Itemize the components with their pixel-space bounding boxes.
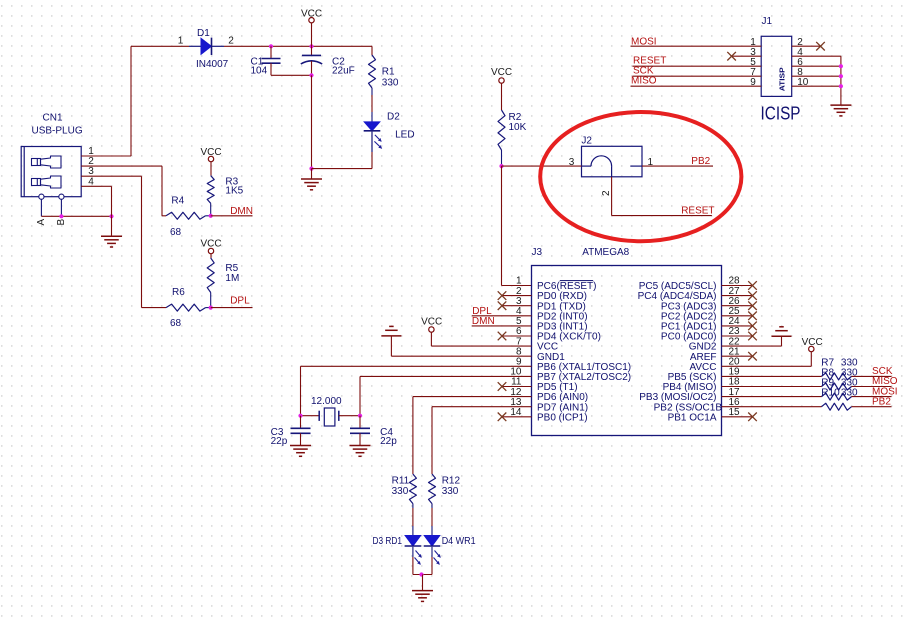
label ICISP: [761, 104, 801, 124]
pin B lead: [56, 199, 67, 225]
svg-text:330: 330: [382, 78, 399, 89]
wire J3 pin13 to R12: [432, 407, 532, 474]
ground below C3: [290, 446, 311, 457]
svg-text:D1: D1: [197, 28, 210, 39]
junction DPL node: [209, 306, 213, 310]
svg-text:B: B: [56, 219, 67, 226]
J1 pin3 stub with no-ERC: [727, 52, 761, 61]
LED D4: [424, 504, 476, 575]
svg-text:68: 68: [170, 318, 182, 329]
net label DPL wire to J3 pin4: [472, 306, 532, 317]
junction J1 pin10: [839, 84, 843, 88]
wire from CN1 pin1 up and across to D1: [102, 46, 190, 156]
svg-text:R6: R6: [172, 287, 185, 298]
svg-text:DMN: DMN: [230, 206, 253, 217]
J1 right pin 8 number: [797, 67, 803, 78]
pin A lead: [36, 199, 47, 225]
J1 pins 4/6/8/10 wires: [792, 56, 841, 105]
svg-text:10K: 10K: [509, 122, 527, 133]
svg-text:LED: LED: [395, 130, 414, 141]
svg-text:1: 1: [178, 36, 184, 47]
resistor R3: [201, 147, 244, 216]
wire CN1 pin4 down: [102, 186, 112, 216]
svg-text:RESET: RESET: [681, 206, 714, 217]
svg-text:R4: R4: [171, 195, 184, 206]
red highlight ellipse: [540, 112, 741, 241]
ground at J3 pin22 GND2: [722, 327, 792, 346]
svg-text:J1: J1: [762, 16, 773, 27]
net label RESET at J2: [681, 206, 714, 217]
junction DMN node: [209, 214, 213, 218]
svg-text:PB2: PB2: [691, 156, 710, 167]
wire J3 pin9 to crystal left: [301, 366, 532, 415]
capacitor C2 22uF (polarized): [301, 46, 355, 76]
svg-text:MOSI: MOSI: [631, 37, 657, 48]
jumper J2: [581, 136, 642, 177]
VCC power to J3 pin7: [421, 316, 531, 346]
net label MISO wire to J1 pin9: [631, 76, 762, 87]
svg-text:D4 WR1: D4 WR1: [442, 536, 476, 547]
svg-text:VCC: VCC: [201, 147, 222, 158]
svg-text:2: 2: [228, 36, 234, 47]
junction crystal left: [298, 414, 302, 418]
wire J3 pin12 to R11: [413, 397, 532, 474]
capacitor C3: [271, 416, 311, 448]
svg-text:VCC: VCC: [301, 9, 322, 20]
svg-text:DPL: DPL: [230, 295, 250, 306]
IC J3 ATMEGA8 body: [532, 247, 722, 435]
ground to J3 pin8: [381, 326, 531, 356]
svg-text:A: A: [36, 219, 47, 226]
junction at C1 top: [269, 44, 273, 48]
resistor R2: [491, 67, 527, 166]
connector J1: [761, 16, 792, 96]
svg-text:ATISP: ATISP: [778, 67, 787, 91]
capacitor C1: [251, 46, 281, 76]
resistor R11: [392, 474, 417, 504]
svg-text:22p: 22p: [380, 436, 397, 447]
diode D1: [189, 28, 229, 70]
pin number 1 of D1: [178, 36, 184, 47]
svg-text:22uF: 22uF: [332, 66, 355, 77]
svg-text:22p: 22p: [271, 436, 288, 447]
svg-text:330: 330: [392, 486, 409, 497]
svg-text:VCC: VCC: [421, 316, 442, 327]
wire CN1 pin3 to R6: [102, 176, 167, 307]
svg-text:330: 330: [841, 388, 858, 399]
VCC at J3 pin20 AVCC: [722, 337, 823, 366]
J2 pin2 number: [601, 190, 612, 196]
net label DMN: [211, 206, 253, 217]
pin number 2 of D1: [228, 36, 234, 47]
svg-text:2: 2: [601, 190, 612, 196]
wire J3 pin10 to crystal right: [360, 376, 532, 415]
wire D2 to ground corner: [371, 152, 373, 169]
resistor R12: [429, 474, 461, 504]
svg-text:VCC: VCC: [802, 337, 823, 348]
LED D2: [364, 111, 415, 152]
resistor R10 and net label PB2: [722, 388, 892, 411]
junction at C2 bottom: [309, 73, 313, 77]
wire A-B to ground: [41, 215, 111, 217]
J2 pin1 number: [648, 157, 654, 168]
net label RESET wire to J1 pin5: [633, 56, 762, 67]
svg-text:VCC: VCC: [491, 67, 512, 78]
ground below LEDs: [412, 575, 433, 602]
ground below C4: [350, 446, 371, 457]
junction at B: [59, 214, 63, 218]
J3 pin name labels: [537, 281, 722, 423]
wire C2 down to ground node: [311, 75, 313, 168]
svg-text:MISO: MISO: [631, 76, 657, 87]
svg-text:1K5: 1K5: [225, 186, 243, 197]
svg-text:ICISP: ICISP: [761, 104, 801, 124]
resistor R8 and net label MISO: [722, 368, 898, 391]
J3 left no-ERC pins 2,3,6,11,14: [498, 291, 532, 421]
svg-text:USB-PLUG: USB-PLUG: [32, 125, 83, 136]
resistor R9 and net label MOSI: [722, 378, 898, 401]
resistor R7 and net label SCK: [722, 358, 893, 380]
svg-text:D2: D2: [387, 111, 400, 122]
svg-text:1M: 1M: [225, 273, 239, 284]
J1 right pin 4 number: [797, 47, 803, 58]
wire LED bottom to ground node: [312, 168, 373, 170]
junction at C2 top: [309, 44, 313, 48]
junction J1 pin6: [839, 64, 843, 68]
svg-text:DMN: DMN: [472, 316, 495, 327]
ground below J1: [830, 105, 851, 116]
svg-text:D3 RD1: D3 RD1: [373, 536, 403, 547]
svg-text:VCC: VCC: [201, 239, 222, 250]
svg-text:IN4007: IN4007: [196, 59, 229, 70]
J1 pin2 stub with no-ERC: [792, 42, 825, 51]
svg-text:R11: R11: [392, 476, 410, 487]
wire joining D3/D4: [413, 574, 432, 576]
resistor R4: [166, 195, 211, 238]
J2 pin3 number: [569, 157, 575, 168]
junction J1 pin8: [839, 74, 843, 78]
crystal Y1 12.000: [301, 396, 361, 426]
svg-text:R1: R1: [382, 67, 395, 78]
svg-text:PB1 OC1A: PB1 OC1A: [668, 412, 717, 423]
wire CN1 pin2 to R4: [102, 166, 167, 216]
ground below C2: [301, 169, 322, 190]
junction LED ground node: [419, 572, 423, 576]
svg-text:12.000: 12.000: [311, 396, 342, 407]
net label DMN wire to J3 pin5: [472, 316, 532, 327]
capacitor C4: [350, 416, 397, 448]
junction C2/LED ground node: [309, 167, 313, 171]
svg-text:330: 330: [442, 486, 459, 497]
resistor R6: [166, 287, 211, 329]
J1 right pin 6 number: [797, 57, 803, 68]
svg-text:104: 104: [251, 66, 268, 77]
J1 left pin 1 number: [750, 37, 756, 48]
J1 right pin 10 number: [797, 77, 809, 88]
VCC power symbol top: [301, 9, 322, 47]
J1 left pin 3 number: [750, 47, 756, 58]
svg-text:R10: R10: [821, 388, 840, 399]
net label SCK wire to J1 pin7: [633, 66, 762, 77]
J3 right no-ERC pins: [722, 281, 757, 421]
connector CN1 USB-PLUG: [21, 113, 101, 200]
resistor R5: [201, 239, 240, 308]
junction crystal right: [358, 414, 362, 418]
wire node to J3 pin1: [502, 166, 532, 285]
svg-text:R12: R12: [442, 476, 461, 487]
J1 left pin 9 number: [750, 77, 756, 88]
J3 pin numbers: [510, 276, 740, 418]
wire node to J2 pin3: [502, 165, 582, 167]
wire C1 bottom to C2: [271, 74, 312, 76]
junction pin4/ground: [109, 214, 113, 218]
J1 left pin 7 number: [750, 67, 756, 78]
net label DPL: [211, 295, 253, 307]
J1 right pin 2 number: [797, 37, 803, 48]
svg-text:4: 4: [88, 176, 94, 187]
svg-text:PB0 (ICP1): PB0 (ICP1): [537, 412, 588, 423]
net label MOSI wire to J1 pin1: [631, 37, 762, 48]
J1 left pin 5 number: [750, 57, 756, 68]
LED D3: [373, 504, 422, 575]
wire D1 to R1 corner: [224, 45, 372, 47]
svg-text:68: 68: [170, 227, 182, 238]
wire J2 pin2 to RESET: [612, 177, 712, 216]
net label PB2 at J2: [642, 156, 713, 167]
ground below CN1: [101, 216, 122, 247]
resistor R1: [369, 46, 399, 121]
junction R2/J2/J3 node: [499, 164, 503, 168]
svg-text:CN1: CN1: [43, 113, 63, 124]
svg-text:J2: J2: [581, 136, 592, 147]
svg-text:J3: J3: [532, 247, 543, 258]
svg-text:ATMEGA8: ATMEGA8: [582, 247, 629, 258]
svg-text:PB2: PB2: [872, 396, 891, 407]
